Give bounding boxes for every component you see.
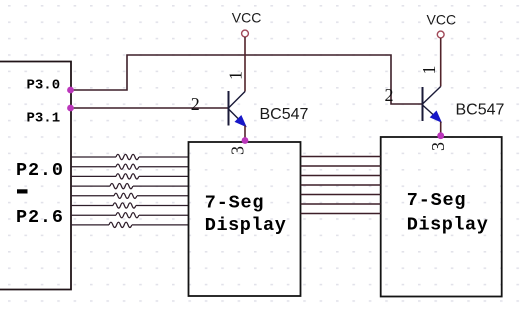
wire row 5 xyxy=(71,195,114,197)
svg-text:VCC: VCC xyxy=(232,9,262,25)
svg-text:VCC: VCC xyxy=(427,12,457,28)
wire P3.0 net: right, up, across top, down to Q2 base xyxy=(71,55,423,104)
junction node P3.1 xyxy=(67,105,74,112)
wire Q1 emitter to DS1 xyxy=(244,126,246,143)
junction node at DS2 pin xyxy=(437,132,444,139)
svg-text:3: 3 xyxy=(428,142,448,151)
resistor R7 xyxy=(116,213,139,218)
svg-text:1: 1 xyxy=(226,71,246,80)
resistor R5 xyxy=(114,193,137,198)
wire row 4 xyxy=(71,185,110,187)
wire row 3 xyxy=(71,175,116,177)
wire seg b xyxy=(301,165,381,167)
resistor R6 xyxy=(113,203,136,208)
wire VCC1 to Q1 collector xyxy=(244,37,246,92)
7-seg display module DS2 xyxy=(381,137,502,297)
svg-text:1: 1 xyxy=(419,66,439,75)
wire row 6 xyxy=(71,205,113,207)
svg-text:P3.1: P3.1 xyxy=(27,111,61,127)
wire seg f xyxy=(301,203,381,205)
resistor R1 xyxy=(116,154,139,159)
emitter arrow xyxy=(235,116,246,127)
svg-text:BC547: BC547 xyxy=(260,106,309,123)
svg-text:2: 2 xyxy=(191,94,200,114)
resistor R2 xyxy=(116,164,139,169)
resistor R8 xyxy=(109,222,132,227)
junction node at DS1 pin xyxy=(242,137,249,144)
svg-text:Display: Display xyxy=(205,215,287,236)
7-seg display module DS1 xyxy=(189,142,301,296)
base bar xyxy=(228,91,230,126)
svg-text:P2.6: P2.6 xyxy=(16,207,64,228)
wire P3.1 net: to Q1 base xyxy=(71,107,229,109)
svg-text:BC547: BC547 xyxy=(456,102,505,119)
microcontroller block U1 (left, partially off-canvas) xyxy=(0,62,71,290)
wire row 1 xyxy=(71,156,116,158)
transistor Q1 BC547 xyxy=(229,91,247,127)
svg-text:P3.0: P3.0 xyxy=(27,78,61,94)
wire Q2 emitter to DS2 xyxy=(440,122,442,138)
pin label dash xyxy=(17,189,28,193)
base bar xyxy=(422,87,424,121)
svg-text:Display: Display xyxy=(407,215,489,236)
emitter diagonal xyxy=(229,109,246,126)
wire seg g xyxy=(301,213,381,215)
resistor R4 xyxy=(110,184,133,189)
svg-text:3: 3 xyxy=(228,146,248,155)
wire row 2 xyxy=(71,166,116,168)
wire seg a xyxy=(301,156,381,158)
svg-text:2: 2 xyxy=(385,85,394,105)
svg-text:7-Seg: 7-Seg xyxy=(407,190,467,211)
transistor Q2 BC547 xyxy=(423,87,442,123)
wire seg c xyxy=(301,175,381,177)
svg-text:7-Seg: 7-Seg xyxy=(205,193,265,214)
collector diagonal xyxy=(423,87,441,105)
segment wires DS1 to DS2 xyxy=(301,157,381,214)
resistor R3 xyxy=(116,174,139,179)
wire row 8 xyxy=(71,224,109,226)
emitter diagonal xyxy=(423,105,441,122)
wire seg d xyxy=(301,184,381,186)
collector diagonal xyxy=(229,92,246,109)
wire seg e xyxy=(301,194,381,196)
junction node P3.0 xyxy=(67,87,74,94)
wire VCC2 to Q2 collector xyxy=(440,38,442,87)
svg-text:P2.0: P2.0 xyxy=(16,160,64,181)
emitter arrow xyxy=(430,111,441,122)
wire row 7 xyxy=(71,214,116,216)
resistor bus wires P2.0-P2.6 with zigzags xyxy=(71,154,188,227)
